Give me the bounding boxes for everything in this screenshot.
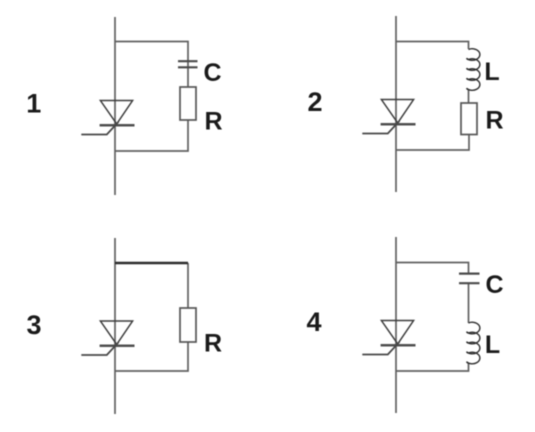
- svg-text:R: R: [204, 108, 222, 136]
- svg-text:L: L: [485, 331, 500, 359]
- svg-text:4: 4: [306, 307, 321, 337]
- svg-text:C: C: [203, 59, 221, 87]
- svg-text:L: L: [484, 58, 499, 86]
- svg-text:2: 2: [307, 87, 322, 117]
- svg-text:1: 1: [26, 89, 41, 119]
- svg-text:R: R: [204, 330, 222, 358]
- svg-text:C: C: [485, 271, 503, 299]
- svg-text:3: 3: [26, 310, 41, 340]
- svg-text:R: R: [485, 107, 503, 135]
